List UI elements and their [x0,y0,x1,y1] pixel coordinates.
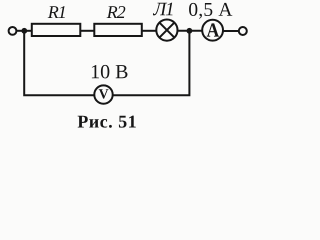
resistor R1 [32,24,81,36]
label R2 [107,6,126,18]
wire T1 to R1 [17,30,32,32]
caption Ris. 51 [78,116,136,128]
label 10 V [92,65,128,79]
voltmeter [94,85,112,103]
terminal T1 (left) [9,27,17,35]
wire ammeter to T2 [223,30,239,32]
lamp L1 [156,20,177,41]
wire right branch (down and along bottom to voltmeter) [112,32,189,96]
ammeter [202,20,223,41]
label R1 [48,6,65,18]
label L1 [153,3,173,16]
resistor R2 [94,24,142,36]
label 0,5 A [189,3,232,19]
wire R2 to lamp [142,30,157,32]
junction node left [21,28,27,34]
voltmeter letter V [99,89,109,98]
terminal T2 (right) [239,27,247,35]
wire R1 to R2 [81,30,95,32]
junction node right [187,28,193,34]
wire left branch (down and along bottom to voltmeter) [24,32,95,96]
wire lamp to ammeter [177,30,202,32]
ammeter letter A [207,23,219,36]
